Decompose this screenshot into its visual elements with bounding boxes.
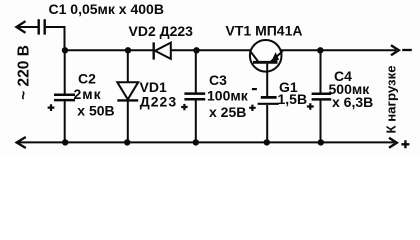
svg-text:VT1 МП41А: VT1 МП41А (226, 23, 303, 39)
svg-text:х 25В: х 25В (209, 104, 246, 120)
svg-text:2мк: 2мк (74, 86, 102, 102)
wire: top rail middle segment (VD2 to VT1) (171, 49, 251, 51)
wire: mains input top lead to C1 (17, 26, 38, 28)
svg-text:1,5В: 1,5В (278, 91, 308, 107)
svg-text:Д223: Д223 (140, 93, 177, 109)
wire: VT1 base lead down to G1 (266, 64, 268, 96)
arrow: output arrow bottom-right (389, 138, 397, 148)
node: C3 bottom junction (193, 139, 199, 145)
node: C4 top junction (317, 47, 323, 53)
arrow: output arrow bottom-left (17, 137, 26, 148)
wire: top rail left segment (65, 49, 154, 51)
transistor VT1 (250, 40, 283, 72)
capacitor C1 (39, 19, 45, 34)
node: C1/C2 top junction (62, 47, 68, 53)
label: output minus polarity (402, 49, 412, 51)
svg-text:С2: С2 (78, 71, 96, 87)
arrow: output arrow top-right (391, 45, 399, 55)
capacitor C4 (312, 94, 332, 100)
label: C3 plus sign (181, 104, 187, 110)
label: C4 plus sign (307, 103, 314, 110)
arrow: input arrow top-left (16, 21, 25, 33)
capacitor C3 (184, 94, 205, 100)
node: VD1 bottom junction (124, 139, 130, 145)
wire: C2 branch vertical (64, 50, 66, 142)
svg-text:~ 220 В: ~ 220 В (16, 45, 33, 100)
node: C3 top junction (193, 47, 199, 53)
svg-text:100мк: 100мк (207, 87, 249, 103)
battery G1 (258, 97, 279, 103)
diode VD1 (117, 82, 138, 100)
svg-text:х 6,3В: х 6,3В (332, 94, 373, 110)
node: C4 bottom junction (318, 139, 324, 145)
capacitor C2 (54, 95, 75, 100)
wire: G1 to bottom rail (266, 105, 268, 142)
wire: bottom rail (19, 141, 394, 143)
node: G1 bottom junction (264, 139, 270, 145)
svg-text:VD2 Д223: VD2 Д223 (129, 23, 194, 39)
svg-text:С1 0,05мк х 400В: С1 0,05мк х 400В (49, 1, 164, 17)
wire: VD1 branch vertical (127, 50, 129, 142)
wire: top rail right segment (VT1 to output) (281, 49, 396, 51)
node: VD1 top junction (125, 47, 131, 53)
wire: C3 branch vertical (195, 50, 197, 142)
label: G1 plus sign (249, 105, 256, 111)
svg-text:х 50В: х 50В (77, 102, 114, 118)
label: G1 minus sign (252, 88, 257, 90)
svg-text:С3: С3 (209, 72, 227, 88)
node: C2 bottom junction (62, 139, 68, 145)
wire: C1 to top rail corner (46, 27, 65, 50)
label: output plus polarity (401, 140, 409, 148)
svg-text:К нагрузке: К нагрузке (384, 65, 399, 133)
diode VD2 (154, 42, 171, 59)
label: C2 plus sign (48, 104, 55, 111)
wire: C4 branch vertical (320, 50, 322, 142)
